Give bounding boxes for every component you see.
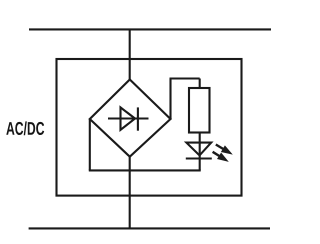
bridge rectifier B1 diamond <box>90 80 171 157</box>
wire: bottom terminal rail <box>29 227 270 229</box>
diode D1 cathode bar <box>137 107 139 130</box>
LED light emission arrow lower <box>213 152 229 162</box>
module box U1 <box>57 59 242 196</box>
wire: bottom return run <box>89 169 201 171</box>
wire: top terminal rail <box>29 28 271 30</box>
resistor R1 <box>189 88 210 133</box>
wire: diode lead inside bridge <box>108 117 149 119</box>
LED D2 triangle <box>186 143 211 156</box>
LED light emission arrow upper <box>216 145 233 155</box>
wire: vertical through-conductor lower segment <box>129 156 131 229</box>
wire: drop into resistor top <box>199 79 201 90</box>
wire: bridge right corner riser <box>169 79 171 120</box>
wire: resistor bottom to LED cathode <box>199 133 201 171</box>
wire: bridge left corner drop <box>89 119 91 171</box>
LED D2 cathode bar <box>186 157 212 159</box>
diode D1 triangle inside bridge <box>121 107 136 129</box>
wire: vertical through-conductor upper segment <box>129 29 131 80</box>
wire: top run to resistor <box>170 77 200 79</box>
label AC/DC <box>6 121 44 135</box>
